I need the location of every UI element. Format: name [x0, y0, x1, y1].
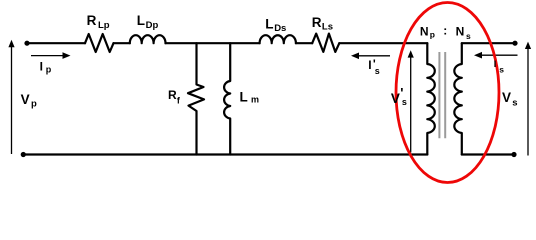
label V_s — [502, 90, 517, 109]
svg-text:p: p — [31, 99, 37, 110]
red highlight ellipse around transformer — [396, 3, 499, 183]
label V_p — [21, 92, 37, 110]
label R_Lp — [87, 13, 110, 31]
wire R_Lp to L_Dp — [114, 42, 130, 44]
svg-text:Ds: Ds — [274, 23, 286, 34]
svg-text:s: s — [512, 98, 517, 109]
svg-text:f: f — [177, 95, 181, 105]
inductor L_Dp — [130, 35, 166, 43]
wire top: node to R_Lp — [27, 42, 85, 44]
wire R_Ls to transformer primary — [339, 42, 427, 44]
svg-text:V: V — [21, 92, 30, 107]
inductor L_Ds — [260, 35, 296, 43]
label I_p — [40, 60, 52, 75]
wire L_Dp to L_Ds — [166, 42, 260, 44]
node top-right — [512, 41, 517, 46]
label V'_s — [391, 86, 407, 108]
resistor R_f branch — [188, 43, 204, 154]
resistor R_Ls — [312, 34, 339, 52]
label I_s — [494, 59, 505, 75]
svg-text:p: p — [46, 65, 52, 75]
svg-text:Dp: Dp — [146, 20, 159, 31]
svg-text:Ls: Ls — [322, 22, 333, 33]
node bottom-right — [511, 152, 516, 157]
svg-text:Lp: Lp — [98, 20, 110, 31]
svg-text:R: R — [312, 15, 322, 30]
svg-text:s: s — [466, 31, 471, 41]
label I'_s — [368, 57, 379, 76]
transformer core line 1 — [438, 52, 440, 138]
label L_Dp — [137, 13, 159, 31]
arrow V's (voltage, points up) — [408, 50, 414, 152]
label N_s — [456, 24, 471, 41]
transformer secondary winding Ns — [454, 43, 461, 154]
inductor L_m branch — [224, 43, 230, 154]
wire L_Ds to R_Ls — [296, 42, 312, 44]
svg-text:V: V — [502, 90, 511, 105]
transformer primary winding Np — [427, 43, 434, 154]
svg-text:I: I — [40, 60, 43, 74]
svg-text:R: R — [168, 88, 177, 102]
label N_p — [420, 24, 435, 39]
transformer core line 2 — [444, 52, 446, 138]
svg-text:R: R — [87, 13, 97, 28]
svg-text::: : — [443, 24, 447, 38]
svg-text:s: s — [375, 66, 380, 76]
svg-text:N: N — [420, 24, 429, 38]
label R_f — [168, 88, 181, 105]
label L_Ds — [265, 16, 286, 34]
svg-text:L: L — [137, 13, 145, 28]
bottom wire left — [23, 153, 427, 155]
svg-text:I: I — [368, 58, 371, 72]
svg-text:I: I — [494, 59, 497, 69]
svg-text:m: m — [251, 95, 259, 105]
svg-text:L: L — [265, 16, 273, 31]
label colon between Np and Ns — [443, 24, 447, 38]
arrow I's (current, points left) — [351, 53, 390, 60]
arrow Is (current, points left) — [474, 52, 518, 59]
svg-text:N: N — [456, 24, 465, 38]
svg-text:s: s — [402, 97, 407, 107]
wire transformer secondary to top-right node — [462, 42, 515, 44]
svg-text:L: L — [240, 89, 248, 104]
svg-text:p: p — [430, 30, 435, 40]
svg-text:s: s — [499, 65, 504, 75]
arrow Vs (voltage, points up) — [525, 42, 531, 156]
resistor R_Lp — [85, 34, 114, 52]
label R_Ls — [312, 15, 333, 33]
node bottom-left — [21, 152, 26, 157]
bottom wire right — [462, 153, 514, 155]
arrow Ip (current, points right) — [31, 52, 71, 59]
svg-text:V: V — [391, 91, 400, 106]
label L_m — [240, 89, 260, 104]
node top-left — [24, 41, 29, 46]
arrow Vp (voltage, points up) — [8, 40, 14, 154]
